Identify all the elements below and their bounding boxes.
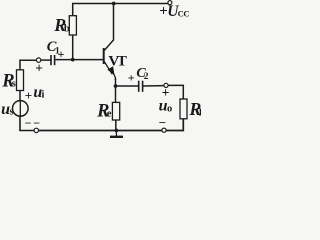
resistor RL bbox=[180, 99, 187, 119]
wire output to RL bbox=[168, 85, 183, 99]
node emitter output junction bbox=[114, 84, 118, 88]
wire Rb bottom to base junction bbox=[72, 35, 74, 60]
wire emitter to C2 bbox=[116, 85, 139, 87]
wire C2 to output terminal bbox=[143, 85, 164, 87]
wire us to bottom rail bbox=[20, 116, 34, 130]
node ground junction bbox=[115, 129, 119, 133]
ground bbox=[110, 131, 123, 137]
svg-text:−: − bbox=[159, 115, 166, 130]
svg-text:−: − bbox=[25, 116, 32, 130]
svg-text:s: s bbox=[12, 79, 16, 90]
terminal input bottom bbox=[34, 128, 38, 132]
svg-text:+: + bbox=[25, 88, 32, 103]
resistor Re bbox=[112, 102, 119, 120]
wire collector vertical bbox=[104, 4, 113, 51]
svg-text:+: + bbox=[128, 70, 135, 84]
terminal output bottom bbox=[162, 128, 166, 132]
capacitor C1 bbox=[51, 55, 55, 65]
wire emitter vertical bbox=[115, 79, 117, 102]
svg-text:b: b bbox=[64, 23, 70, 34]
wire input top segment bbox=[20, 60, 36, 72]
svg-text:+: + bbox=[58, 47, 65, 61]
svg-text:2: 2 bbox=[144, 72, 149, 82]
transistor VT bbox=[104, 48, 113, 74]
svg-text:e: e bbox=[107, 109, 112, 120]
wire base bbox=[56, 59, 103, 61]
wire Rs to us bbox=[19, 91, 21, 101]
terminal input top bbox=[36, 58, 40, 62]
svg-text:VT: VT bbox=[108, 54, 127, 70]
node collector rail junction bbox=[112, 2, 116, 6]
capacitor C2 bbox=[139, 81, 143, 92]
svg-text:L: L bbox=[199, 108, 201, 119]
svg-text:−: − bbox=[33, 116, 40, 130]
source us bbox=[12, 101, 28, 117]
resistor Rb bbox=[69, 16, 76, 35]
wire bottom rail bbox=[39, 130, 162, 132]
svg-text:s: s bbox=[10, 107, 14, 118]
svg-text:+: + bbox=[162, 85, 170, 100]
node base junction bbox=[71, 58, 75, 62]
svg-text:+: + bbox=[35, 61, 43, 76]
wire bottom rail right bbox=[166, 119, 183, 131]
wire circle to C1 bbox=[41, 59, 51, 61]
svg-text:o: o bbox=[167, 103, 172, 114]
terminal Ucc bbox=[168, 1, 172, 5]
wire Re to ground junction bbox=[115, 120, 117, 131]
svg-text:CC: CC bbox=[178, 9, 190, 19]
terminal output top bbox=[164, 83, 168, 87]
resistor Rs bbox=[17, 70, 24, 91]
wire top rail bbox=[73, 4, 168, 16]
svg-text:i: i bbox=[42, 89, 45, 100]
